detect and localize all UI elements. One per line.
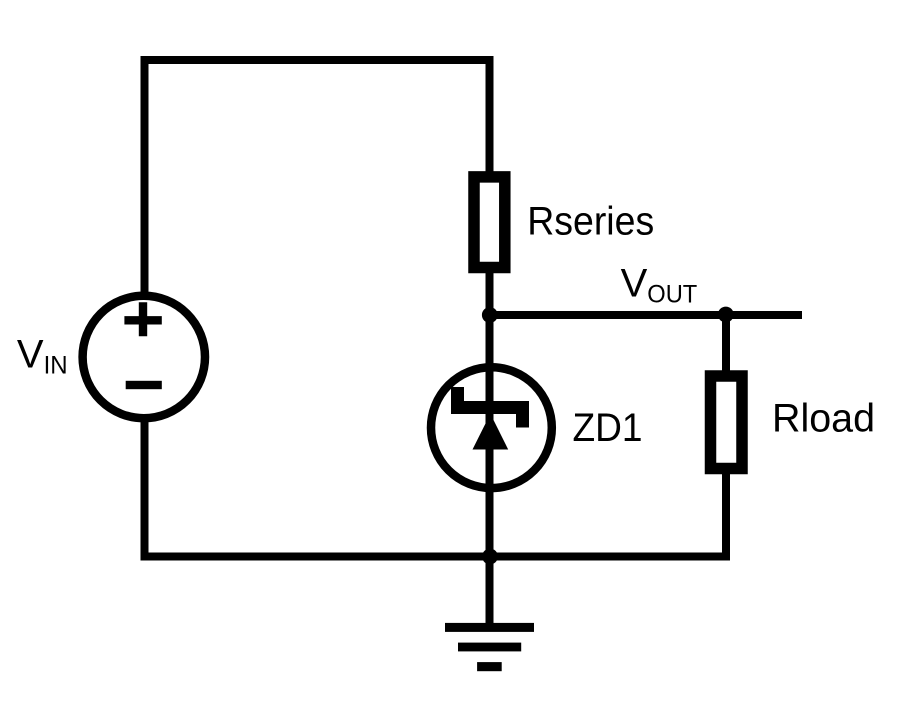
voltage source V_IN: [83, 296, 205, 418]
svg-text:ZD1: ZD1: [573, 406, 643, 450]
node: junction V_OUT / Rload: [718, 307, 734, 323]
wire: Rseries bottom lead through ZD1 down to ground lead: [486, 272, 494, 623]
wire: Rload top lead: [722, 315, 730, 372]
wire: V_IN positive lead, top rail and Rseries top lead: [145, 60, 490, 296]
ground: [445, 623, 534, 671]
zener cathode bar with bent ends: [451, 387, 529, 428]
anode triangle: [473, 414, 509, 450]
svg-text:VIN: VIN: [17, 333, 68, 380]
plus polarity mark: [124, 302, 161, 336]
source body circle: [83, 296, 205, 418]
wire: V_IN negative lead and left ground rail: [145, 418, 492, 557]
svg-text:Rseries: Rseries: [527, 200, 654, 244]
wire: V_OUT rail: [490, 311, 803, 319]
node: junction ground rail / ZD1: [482, 549, 498, 565]
resistor Rseries: [474, 177, 505, 268]
zener diode ZD1: [431, 367, 552, 488]
wire: Rload bottom lead and right ground rail: [488, 472, 726, 557]
svg-text:Rload: Rload: [772, 396, 875, 440]
minus polarity mark: [126, 381, 162, 389]
node: junction Rseries / ZD1 / V_OUT: [482, 307, 498, 323]
diode body circle: [431, 367, 552, 488]
resistor Rload: [711, 376, 743, 469]
svg-text:VOUT: VOUT: [621, 262, 698, 309]
